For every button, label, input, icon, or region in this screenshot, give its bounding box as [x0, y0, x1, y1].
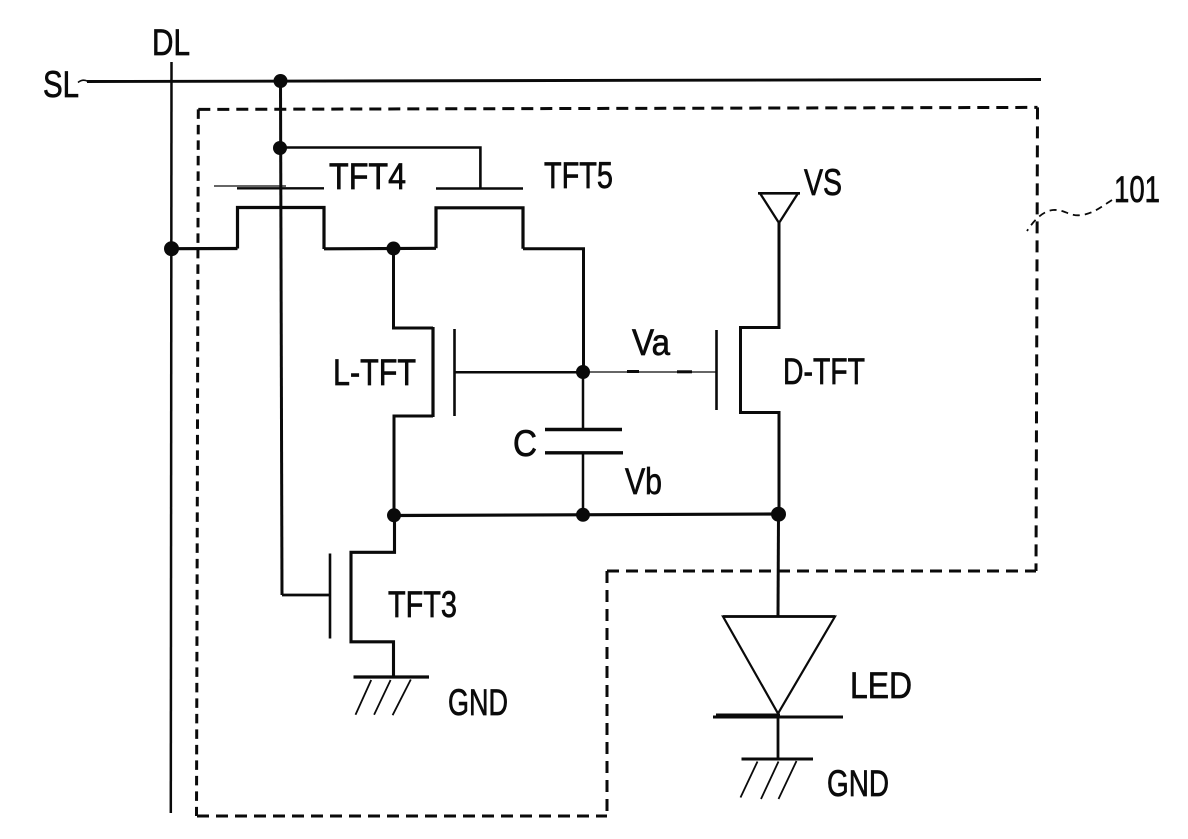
ground slash 1 LED	[741, 762, 758, 798]
transistor D-TFT gate bar	[715, 330, 718, 410]
diode LED anode top edge	[723, 615, 835, 618]
wire TFT4 drain to node	[324, 247, 436, 251]
diode LED cathode sketch stroke	[716, 714, 780, 716]
transistor D-TFT drain-channel-source	[741, 223, 780, 514]
transistor TFT5 gate bar	[436, 187, 523, 189]
pixel boundary dashed box right edge	[1036, 107, 1038, 571]
ground slash 2 TFT3	[374, 680, 391, 715]
svg-text:GND: GND	[827, 763, 889, 804]
capacitor C top plate	[545, 428, 622, 431]
svg-text:VS: VS	[804, 162, 842, 203]
wire DL to TFT4 source	[172, 247, 238, 250]
junction SL x gate-column	[274, 74, 288, 88]
pixel boundary dashed step horizontal	[607, 570, 1036, 573]
svg-text:D-TFT: D-TFT	[783, 351, 865, 392]
transistor TFT3 gate bar	[329, 554, 332, 639]
junction gate-column branch	[273, 141, 287, 155]
diode LED triangle	[723, 617, 835, 714]
wire SL scan line	[87, 80, 1041, 82]
wire bottom node row	[394, 514, 779, 516]
pixel boundary dashed box bottom edge	[197, 815, 607, 818]
wire L-TFT gate to node Va	[456, 371, 584, 374]
svg-text:Va: Va	[632, 322, 670, 363]
wire Va dash mark 1	[627, 370, 639, 373]
ground slash 3 TFT3	[393, 680, 411, 716]
junction left bottom node	[387, 508, 401, 522]
svg-text:TFT4: TFT4	[329, 156, 406, 197]
wire TFT5 drain to cap column	[523, 249, 584, 372]
svg-text:C: C	[513, 423, 537, 464]
svg-text:DL: DL	[152, 22, 190, 63]
wire Va dash mark 2	[677, 370, 692, 373]
wire SL label tick	[78, 80, 88, 82]
transistor TFT4 channel	[238, 208, 325, 250]
svg-text:GND: GND	[448, 682, 508, 723]
power VS terminal triangle	[760, 193, 798, 223]
junction TFT4/TFT5/L-TFT node	[387, 242, 401, 256]
ground slash 1 TFT3	[356, 680, 372, 715]
junction DL x row wire	[164, 241, 179, 256]
pixel boundary dashed box left edge	[197, 109, 199, 816]
svg-text:TFT3: TFT3	[388, 584, 457, 625]
wire DL vertical data line	[170, 62, 173, 813]
transistor TFT5 channel	[436, 208, 523, 249]
svg-text:SL: SL	[43, 64, 79, 105]
transistor TFT3 channel and legs	[351, 516, 395, 678]
svg-text:101: 101	[1114, 169, 1160, 210]
reference 101 leader squiggle	[1027, 200, 1112, 231]
junction D-TFT source node	[771, 507, 786, 522]
transistor L-TFT drain leg	[394, 249, 434, 329]
ground bar TFT3	[354, 675, 430, 678]
transistor TFT4 gate sketch stroke	[214, 185, 286, 187]
pixel boundary dashed step vertical	[606, 571, 609, 816]
svg-text:Vb: Vb	[625, 461, 662, 502]
wire vertical from SL down to TFT3 gate level	[281, 81, 283, 595]
diode LED cathode bar	[713, 716, 843, 719]
pixel boundary dashed box top edge	[198, 107, 1037, 109]
wire TFT3 gate connection	[282, 594, 330, 597]
ground slash 2 LED	[761, 762, 779, 800]
power VS top bar overhang	[758, 192, 800, 195]
wire D-TFT source to LED	[777, 514, 781, 616]
transistor L-TFT gate bar	[453, 329, 456, 416]
transistor L-TFT source leg	[394, 416, 433, 516]
svg-text:TFT5: TFT5	[544, 155, 613, 196]
capacitor C bottom lead	[582, 453, 585, 515]
svg-text:L-TFT: L-TFT	[333, 352, 416, 393]
transistor TFT4 gate bar	[237, 187, 324, 189]
ground bar LED	[742, 758, 814, 761]
wire branch to TFT5 gate	[280, 148, 480, 189]
svg-text:LED: LED	[850, 665, 912, 706]
capacitor C top lead	[582, 372, 585, 428]
junction cap bottom node	[576, 508, 590, 522]
wire LED cathode to ground	[777, 717, 780, 759]
transistor L-TFT channel	[431, 327, 434, 417]
ground slash 3 LED	[779, 761, 797, 799]
node Va junction dot	[576, 365, 590, 379]
wire Va to D-TFT gate thin	[583, 371, 717, 373]
capacitor C bottom plate	[545, 451, 623, 454]
